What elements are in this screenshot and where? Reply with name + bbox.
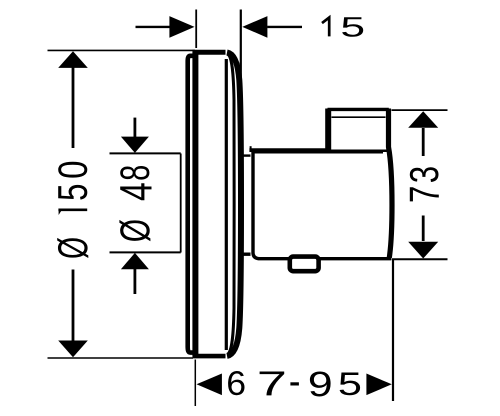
handle left edge — [325, 109, 331, 151]
dim Ø48 bottom tick line — [110, 251, 181, 253]
sleeve silhouette line behind plate (Ø48 cylinder) — [180, 154, 182, 253]
dim 15 right extension line — [240, 10, 242, 133]
dim Ø150 label — [57, 238, 88, 258]
escutcheon front face chamfer line — [225, 59, 228, 350]
dim 15 left extension line — [195, 10, 197, 49]
handle top edge — [328, 108, 389, 111]
dim Ø48 top tick line — [110, 152, 181, 154]
escutcheon top edge — [193, 50, 226, 55]
dim 73 top extension line — [392, 109, 448, 111]
dim 73 label — [410, 167, 439, 182]
dim 67-95 right extension line — [392, 259, 394, 402]
body left edge with rounded bottom corner — [253, 150, 391, 259]
dim 67-95 left-pointing arrowhead — [197, 374, 222, 396]
handle cap seam line — [332, 116, 386, 118]
dim 67-95 label — [228, 371, 244, 395]
dim Ø48 lower leader line — [133, 269, 136, 294]
escutcheon back face thick line — [192, 52, 198, 357]
body top edge — [249, 148, 389, 152]
sleeve top connector between plate and body — [241, 154, 251, 156]
escutcheon front face silhouette arc — [227, 53, 241, 356]
dim 67-95 right-pointing arrowhead — [366, 374, 391, 396]
dim Ø150 up arrowhead — [58, 51, 88, 68]
dim 15 left leader line — [136, 26, 170, 28]
dim Ø150 bottom extension line — [48, 357, 194, 359]
dim 15 right-pointing arrowhead — [169, 16, 194, 38]
dim 73 dimension line segments — [422, 128, 425, 241]
dim 73 bottom extension line — [392, 258, 448, 260]
escutcheon bottom edge — [193, 354, 226, 359]
dim 15 right leader line — [267, 26, 302, 28]
dim Ø150 dimension line segments — [72, 68, 75, 343]
dim 15 label — [322, 18, 329, 37]
escutcheon front dome contour arc — [227, 54, 234, 355]
escutcheon plate (edge view, Ø150) white fill — [195, 52, 241, 356]
dim Ø48 down arrowhead — [121, 137, 149, 153]
dim 67-95 left extension line — [194, 360, 196, 407]
dim Ø48 label — [120, 166, 149, 180]
dim Ø48 up arrowhead — [121, 253, 149, 269]
valve body white fill — [252, 151, 393, 258]
handle white fill — [326, 109, 391, 150]
dim 73 up arrowhead — [408, 111, 438, 128]
sleeve bottom connector between plate and body — [241, 252, 251, 255]
body top seam thin line — [254, 152, 383, 154]
dim Ø48 upper leader line — [133, 118, 136, 137]
dim Ø150 down arrowhead — [58, 341, 88, 358]
dim 73 down arrowhead — [408, 242, 438, 259]
body top-left corner stub — [250, 146, 252, 151]
dim Ø150 top extension line — [48, 49, 196, 51]
dim 15 left-pointing arrowhead — [242, 16, 267, 38]
handle right edge merging into curved body right edge — [389, 109, 393, 258]
bottom fixing tab under body — [290, 257, 319, 272]
back seal plate (edge view, left of escutcheon) — [188, 56, 194, 353]
